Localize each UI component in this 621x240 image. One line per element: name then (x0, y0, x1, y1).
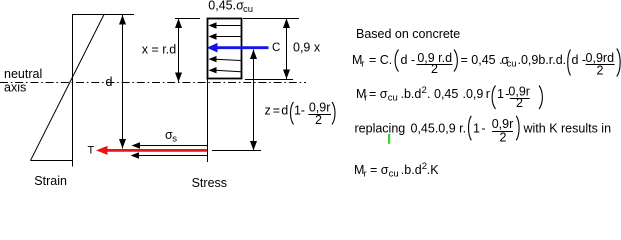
svg-text:T: T (88, 145, 95, 157)
svg-text:r: r (486, 87, 490, 101)
svg-text:2: 2 (431, 62, 438, 76)
svg-text:cu: cu (243, 4, 253, 15)
svg-text:0,45.0,9 r.: 0,45.0,9 r. (411, 122, 467, 136)
svg-text:= C.: = C. (369, 53, 392, 67)
svg-text:2: 2 (422, 85, 427, 96)
svg-text:2: 2 (516, 96, 523, 110)
svg-text:0,9 x: 0,9 x (293, 41, 321, 55)
svg-text:r: r (364, 93, 367, 104)
svg-text:-: - (301, 104, 305, 118)
svg-text:z: z (265, 104, 271, 118)
svg-text:= σ: = σ (369, 87, 388, 101)
svg-text:r: r (361, 59, 364, 70)
svg-text:d -: d - (572, 53, 587, 67)
svg-text:.0,9b.r.d.: .0,9b.r.d. (518, 53, 567, 67)
svg-text:with K results in: with K results in (523, 122, 612, 136)
svg-text:.b.d: .b.d (401, 87, 422, 101)
svg-text:cu: cu (389, 169, 399, 180)
svg-text:.K: .K (427, 163, 439, 177)
svg-text:.0,9: .0,9 (463, 87, 484, 101)
svg-text:0,45.σ: 0,45.σ (208, 0, 244, 13)
svg-text:0,9r: 0,9r (492, 117, 514, 131)
svg-text:-: - (481, 122, 485, 136)
svg-text:neutral: neutral (4, 67, 42, 81)
svg-text:C: C (272, 42, 280, 54)
svg-text:x = r.d: x = r.d (142, 43, 176, 57)
svg-text:d -: d - (401, 53, 416, 67)
svg-text:=: = (273, 104, 280, 118)
svg-text:cu: cu (507, 59, 517, 70)
svg-text:r: r (364, 169, 367, 180)
svg-text:Based on concrete: Based on concrete (356, 27, 460, 41)
svg-text:2: 2 (597, 63, 604, 77)
svg-text:2: 2 (315, 113, 322, 127)
svg-text:2: 2 (500, 130, 507, 144)
svg-text:= σ: = σ (370, 163, 389, 177)
svg-text:d: d (281, 104, 288, 118)
svg-text:1: 1 (497, 87, 504, 101)
svg-text:0,45: 0,45 (434, 87, 458, 101)
svg-text:.b.d: .b.d (401, 163, 422, 177)
svg-text:Stress: Stress (192, 176, 227, 187)
svg-text:d: d (106, 75, 113, 89)
svg-text:s: s (172, 134, 177, 145)
svg-text:Strain: Strain (34, 174, 67, 187)
svg-text:axis: axis (4, 81, 26, 95)
svg-text:.: . (427, 87, 430, 101)
svg-text:= 0,45 .: = 0,45 . (461, 53, 503, 67)
svg-text:replacing: replacing (355, 122, 406, 136)
svg-text:1: 1 (473, 122, 480, 136)
svg-text:cu: cu (388, 93, 398, 104)
